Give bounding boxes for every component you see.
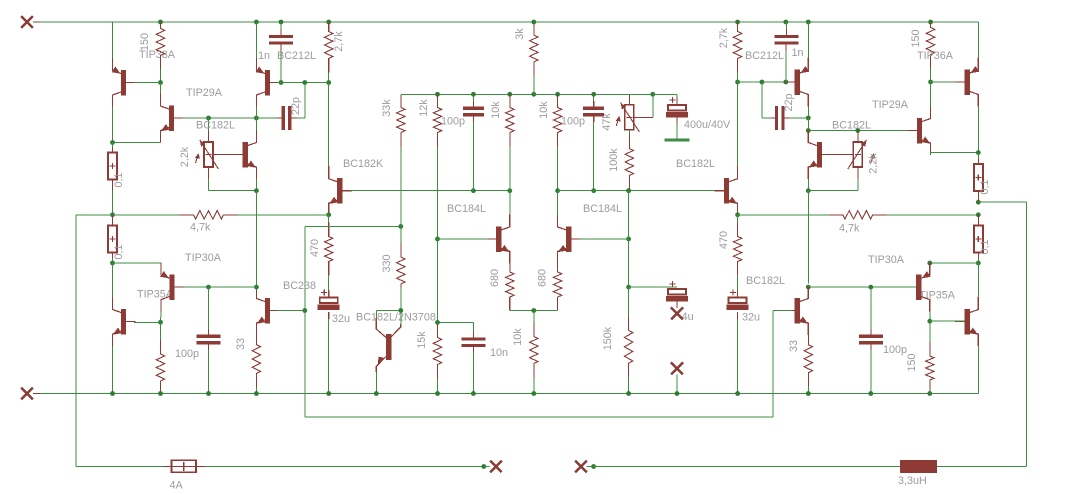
pin 100p midleft bottom: [472, 115, 474, 122]
svg-text:1n: 1n: [792, 47, 804, 59]
junction rail 150RE: [927, 391, 932, 396]
svg-text:4,7k: 4,7k: [190, 222, 211, 234]
svg-text:100p: 100p: [561, 116, 585, 128]
pin 100p midright top: [593, 101, 595, 108]
junction trim top L: [206, 116, 211, 121]
wire Q2 base: [182, 117, 256, 119]
junction rail 3k: [531, 20, 536, 25]
wire box1 top: [112, 143, 114, 148]
transistor BC212L Q4: [256, 58, 280, 107]
pin 1n right bottom: [785, 43, 787, 51]
capacitor 32u left: [318, 290, 340, 311]
pin 47k top: [628, 95, 630, 105]
wire to 400u: [653, 93, 677, 95]
wire 330 to Q18: [400, 287, 402, 311]
pin 32u left bottom: [328, 312, 330, 319]
svg-text:BC184L: BC184L: [447, 203, 486, 215]
transistor TIP36A Q13: [955, 58, 979, 107]
wire Q14 emitter to col: [931, 152, 979, 154]
wire Q4 emitter feed: [255, 22, 257, 58]
wire 100pRm bottom lead: [593, 122, 595, 191]
wire 47k wiper: [634, 116, 653, 118]
svg-text:0,1: 0,1: [113, 244, 125, 259]
resistor 10k right: [553, 94, 561, 190]
wire BC182K base wire: [350, 190, 510, 192]
svg-text:100p: 100p: [441, 116, 465, 128]
svg-text:470: 470: [718, 231, 730, 249]
resistor 33k: [397, 94, 405, 190]
wire 12k to base: [437, 191, 439, 239]
junction Q9 collector node: [507, 188, 512, 193]
svg-text:BC184L: BC184L: [583, 203, 622, 215]
wire input net: [438, 321, 474, 323]
svg-text:32u: 32u: [742, 312, 760, 324]
resistor 150k: [624, 287, 632, 393]
wire Q3 collector up: [255, 118, 257, 130]
wire Q4 collector down: [255, 107, 257, 118]
svg-text:150: 150: [910, 29, 922, 47]
inductor 3,3uH: [900, 460, 937, 473]
svg-text:22p: 22p: [290, 97, 302, 115]
wire Q18 emitter down: [375, 372, 377, 394]
wire Q15 emitter down: [807, 179, 809, 191]
junction Q18 cb node: [398, 308, 403, 313]
wire Q18 base stub: [375, 311, 377, 319]
wire col256 down to BC238: [255, 191, 257, 287]
wire Q13 rail drop: [977, 22, 979, 58]
svg-text:10k: 10k: [512, 328, 524, 346]
wire 1nR top: [785, 22, 787, 30]
resistor 4,7k left: [180, 211, 238, 219]
capacitor 22p left: [283, 106, 290, 130]
transistor BC212L Q12: [785, 58, 809, 107]
wire comp left y287: [182, 286, 256, 288]
svg-text:2,2k: 2,2k: [179, 146, 191, 167]
junction rail 15k: [435, 391, 440, 396]
junction 15k top: [435, 320, 440, 325]
pin 100p rightbot top: [870, 329, 872, 336]
svg-text:100k: 100k: [608, 148, 620, 172]
wire Q19 base wire: [808, 286, 916, 288]
wire bias riser: [304, 226, 306, 417]
junction output node left: [110, 212, 115, 217]
wire output tap: [978, 201, 1026, 203]
wire Q17 collector: [807, 286, 809, 287]
pin X bottom left: [33, 393, 40, 395]
svg-text:0,1: 0,1: [979, 179, 991, 194]
svg-text:BC182L/2N3708: BC182L/2N3708: [356, 312, 436, 324]
transistor BC182L Q11 (VAS right): [714, 166, 737, 215]
junction 100pLm top: [471, 92, 476, 97]
junction 100pL2 top: [206, 285, 211, 290]
wire V+ rail: [39, 21, 978, 23]
svg-text:1n: 1n: [258, 50, 270, 62]
fuse 4A: [163, 460, 205, 472]
transistor TIP30A Q6: [160, 263, 184, 312]
svg-text:BC182L: BC182L: [746, 275, 785, 287]
wire box R2 bottom: [977, 258, 979, 264]
pin 400u bottom: [676, 117, 678, 124]
wire wiper to Q15 base: [822, 154, 853, 156]
junction Q1 base node: [158, 80, 163, 85]
junction rail 10n: [471, 391, 476, 396]
wire base rail left: [277, 82, 329, 84]
junction 100pRm bottom: [591, 188, 596, 193]
transistor BC182K: [329, 166, 352, 215]
transistor BC184L right Q10: [558, 214, 581, 263]
wire wiper to Q3 base: [213, 154, 243, 156]
X mark speaker left: [490, 461, 502, 473]
wire X stub: [676, 375, 678, 394]
wire box1 bottom: [112, 190, 114, 215]
svg-text:BC182L: BC182L: [676, 158, 715, 170]
wire 100pRB bottom lead: [870, 350, 872, 394]
junction rail 10k tail: [531, 391, 536, 396]
junction Q7 base node: [158, 320, 163, 325]
wire 33k to bias: [400, 191, 402, 227]
svg-text:10n: 10n: [490, 347, 508, 359]
pin 1n left top: [280, 29, 282, 37]
junction rail 32uL: [326, 391, 331, 396]
wire 22pR riser: [761, 82, 763, 118]
wire to 4u: [629, 286, 677, 288]
junction Q15 emitter node: [806, 188, 811, 193]
svg-text:33: 33: [788, 340, 800, 352]
wire fuse run b: [205, 465, 484, 467]
capacitor 22p right: [777, 106, 784, 130]
svg-text:2,7k: 2,7k: [333, 31, 345, 52]
pin 100p leftbot top: [208, 329, 210, 336]
capacitor 100p mid right: [583, 108, 604, 115]
svg-text:TIP30A: TIP30A: [185, 252, 222, 264]
pin 0,1 L2 bottom: [112, 252, 114, 258]
junction riser 628 y190: [626, 188, 631, 193]
svg-text:4A: 4A: [170, 480, 184, 492]
resistor 33 left: [252, 335, 260, 394]
svg-text:BC182L: BC182L: [832, 120, 871, 132]
capacitor 100p mid left: [463, 108, 484, 115]
resistor 680 right: [553, 263, 561, 297]
resistor 150 left: [156, 22, 164, 83]
wire fuse run a: [76, 465, 164, 467]
pin 100p leftbot bottom: [208, 343, 210, 350]
wire Q9 base: [436, 238, 488, 240]
wire output run right b: [887, 214, 979, 216]
wire trim top lead: [208, 118, 210, 131]
junction rail 100pLB: [206, 391, 211, 396]
svg-text:4u: 4u: [682, 311, 694, 323]
wire BC238 collector: [255, 286, 257, 287]
svg-text:15k: 15k: [416, 331, 428, 349]
X bottom left rail: [21, 388, 33, 400]
svg-text:3,3uH: 3,3uH: [898, 475, 927, 487]
resistor 2,7k right: [733, 22, 741, 82]
wire Q11 collector up: [737, 82, 739, 166]
wire Q18 collector stub: [400, 311, 402, 325]
wire Q2 collector: [160, 83, 162, 94]
junction rail 32uR: [735, 391, 740, 396]
resistor 15k: [433, 322, 441, 393]
pin 100p midright bottom: [593, 115, 595, 122]
resistor 10k tail: [530, 310, 538, 393]
junction rail X stub: [675, 391, 680, 396]
trimmer 2,2k left: [195, 140, 219, 169]
transistor TIP35A Q16: [955, 297, 978, 346]
wire output run left b: [238, 214, 329, 216]
resistor 150 left emitter: [156, 322, 164, 393]
pin 10n bottom: [472, 346, 474, 353]
wire bias cross: [305, 225, 401, 227]
wire Q9 collector: [509, 191, 511, 215]
junction rail 150k: [626, 391, 631, 396]
wire y417 cross: [305, 416, 773, 418]
junction 12k top: [435, 92, 440, 97]
resistor 3k: [530, 22, 538, 94]
svg-text:BC212L: BC212L: [745, 50, 784, 62]
capacitor 100p right bottom: [859, 336, 883, 343]
wire output run right a: [738, 214, 829, 216]
svg-text:100p: 100p: [175, 348, 199, 360]
svg-text:680: 680: [489, 269, 501, 287]
wire 100pLB bottom: [208, 350, 210, 394]
resistor 0,1 left upper: [108, 153, 117, 180]
wire Q12 emitter feed: [807, 22, 809, 58]
junction 100pRB top: [868, 285, 873, 290]
capacitor 4u: [666, 281, 688, 302]
wire col2 down: [112, 22, 114, 58]
wire 1nR bottom: [785, 50, 787, 82]
pin 22p left lead2: [291, 117, 297, 119]
pin 0,1 L1 top: [112, 147, 114, 153]
junction 100pL bottom: [471, 188, 476, 193]
wire 100pLm bottom lead: [472, 122, 474, 191]
transistor BC238: [256, 286, 279, 335]
junction Q10 coll node: [555, 188, 560, 193]
svg-text:32u: 32u: [332, 313, 350, 325]
resistor 150 right emitter: [926, 321, 934, 393]
pin fuse right: [196, 465, 205, 467]
wire 32uR bottom: [737, 319, 739, 394]
junction 1nR: [783, 80, 788, 85]
junction 470R top: [735, 212, 740, 217]
pin trimmer right top: [857, 131, 859, 143]
wire trim bottom to node: [209, 190, 257, 192]
transistor BC182L Q3: [233, 130, 256, 179]
X mark speaker right: [575, 461, 587, 473]
junction Q16 base node: [927, 319, 932, 324]
pin trimmer left top: [208, 131, 210, 143]
wire 10n top: [472, 322, 474, 332]
wire trimR bottom to node: [808, 190, 858, 192]
pin 680 left bend: [509, 297, 511, 310]
wire ind stub: [587, 466, 594, 468]
junction BC238 coll node: [254, 285, 259, 290]
wire emitter node: [113, 142, 161, 144]
junction 3k bottom: [531, 92, 536, 97]
capacitor 400u/40V: [666, 97, 688, 118]
svg-text:470: 470: [309, 239, 321, 257]
svg-text:0,1: 0,1: [979, 239, 991, 254]
wire Q13 collector down: [977, 107, 979, 153]
X mark stub: [671, 363, 683, 375]
pin 22p right lead1: [771, 117, 776, 119]
wire col978 a: [977, 153, 979, 159]
svg-text:TIP35A: TIP35A: [919, 290, 956, 302]
junction rail 150LE: [158, 391, 163, 396]
pin X top left: [33, 21, 40, 23]
wire 680L to join: [510, 309, 534, 311]
svg-text:150k: 150k: [602, 326, 614, 350]
capacitor 1n right: [774, 37, 798, 44]
svg-text:150: 150: [906, 353, 918, 371]
pin 100p midleft top: [472, 101, 474, 108]
wire 22pL riser: [304, 83, 306, 119]
wire takeoff left down: [75, 215, 77, 467]
wire base to input node: [437, 239, 439, 323]
junction rail 2,7kR: [735, 20, 740, 25]
trimmer 2,2k right: [848, 140, 876, 169]
wire takeoff right down: [1025, 202, 1027, 466]
junction output node right: [976, 212, 981, 217]
transistor BC182L Q15: [808, 130, 831, 179]
wire 1nL bottom: [280, 50, 282, 83]
junction rail 1nR: [783, 20, 788, 25]
junction BC238 base node: [302, 308, 307, 313]
junction rail 33R: [806, 391, 811, 396]
resistor 10k left: [506, 94, 514, 190]
junction 10kL top: [507, 92, 512, 97]
wire Q3 emitter down: [255, 179, 257, 191]
wire Q19 collector down: [929, 312, 931, 322]
transistor TIP30A Q19: [907, 263, 931, 312]
junction 1nL: [279, 80, 284, 85]
junction Q19 emitter: [927, 261, 932, 266]
wire 22pR left: [762, 117, 771, 119]
pin 400u top: [676, 98, 678, 105]
svg-text:TIP35A: TIP35A: [137, 289, 174, 301]
wire to Q6 emitter: [113, 262, 162, 264]
junction fuse end: [481, 464, 486, 469]
svg-text:33: 33: [235, 338, 247, 350]
wire Q1 base: [134, 82, 161, 84]
svg-text:3k: 3k: [514, 28, 526, 40]
svg-text:2,7k: 2,7k: [718, 27, 730, 48]
svg-text:12k: 12k: [418, 99, 430, 117]
pin trimmer left bottom: [208, 167, 210, 179]
wire col808 y190-287: [807, 191, 809, 284]
wire Q10 collector: [557, 191, 559, 215]
junction y82 end: [326, 80, 331, 85]
wire 470-32u: [328, 287, 330, 291]
junction rail 150L: [158, 20, 163, 25]
junction 10kR top: [555, 92, 560, 97]
junction rail 100pRB: [868, 391, 873, 396]
capacitor 32u right: [727, 290, 749, 311]
svg-text:10k: 10k: [490, 101, 502, 119]
resistor 4,7k right: [829, 211, 887, 219]
junction col978 263: [976, 261, 981, 266]
wire vref rail: [401, 93, 653, 95]
wire Q16 collector up: [977, 263, 979, 297]
pin 0,1 R1 top: [977, 159, 979, 165]
pin 32u right bottom: [737, 312, 739, 319]
transistor TIP29A Q14: [907, 106, 930, 155]
resistor 0,1 right lower: [974, 226, 983, 253]
junction Q13 base node: [928, 80, 933, 85]
pin 10n top: [472, 332, 474, 339]
junction rail Q12: [806, 20, 811, 25]
resistor 12k: [433, 94, 441, 190]
wire 32uL bottom: [328, 319, 330, 394]
junction Q13-Q14 node: [976, 150, 981, 155]
wire 22pR right: [789, 117, 808, 119]
transistor TIP35A Q7: [113, 297, 136, 346]
junction rail 33L: [254, 391, 259, 396]
transistor TIP33A Q1: [112, 58, 136, 107]
junction rail Q4: [254, 20, 259, 25]
pin 32u right top: [737, 290, 739, 297]
capacitor 10n: [461, 339, 485, 346]
wire Q16 base wire: [930, 320, 965, 322]
wire Q13 base wire: [931, 81, 957, 83]
svg-text:BC212L: BC212L: [277, 50, 316, 62]
wire riser 628: [628, 191, 630, 287]
junction Q10 base node: [626, 237, 631, 242]
junction rail 2,7kL: [326, 20, 331, 25]
junction trimR top: [855, 128, 860, 133]
wire box2 bottom: [112, 258, 114, 264]
junction Q12 coll node: [806, 116, 811, 121]
wire Q6 collector down: [160, 312, 163, 323]
svg-text:10k: 10k: [538, 101, 550, 119]
svg-text:100p: 100p: [883, 344, 907, 356]
wire ind run b: [937, 466, 1026, 468]
wire Q17 base: [773, 310, 791, 312]
pin 0,1 R2 top: [977, 215, 979, 226]
pin 22p left lead1: [277, 117, 283, 119]
junction comp node L: [254, 116, 259, 121]
junction 22pR riser: [760, 80, 765, 85]
junction col808 287: [806, 285, 811, 290]
wire Q1 collector down: [112, 107, 114, 143]
svg-text:BC238: BC238: [283, 280, 316, 292]
trimmer 47k: [616, 103, 640, 132]
wire fuse end stub: [484, 466, 490, 468]
junction output tap right: [976, 200, 981, 205]
svg-text:TIP36A: TIP36A: [917, 50, 954, 62]
junction 470L top: [326, 212, 331, 217]
wire 680R to join: [534, 309, 558, 311]
svg-text:150: 150: [139, 33, 151, 51]
svg-text:TIP29A: TIP29A: [872, 99, 909, 111]
junction Q11 coll node: [735, 80, 740, 85]
svg-text:680: 680: [537, 269, 549, 287]
wire Q10 base: [580, 238, 629, 240]
svg-text:2,2k: 2,2k: [868, 153, 880, 174]
wire trim jog right (Q14 base): [808, 130, 917, 132]
wire 22pL right: [296, 117, 305, 119]
wire bottom rail: [39, 393, 978, 395]
transistor BC184L left Q9: [487, 214, 510, 263]
wire 100pLm top lead: [472, 94, 474, 101]
pin 4u bottom: [676, 302, 678, 309]
junction rail 1nL: [279, 20, 284, 25]
resistor 470 left: [325, 215, 333, 287]
pin trimmer right bottom: [857, 167, 859, 179]
wire 100pRm top lead: [593, 94, 595, 101]
resistor 0,1 left lower: [108, 226, 117, 253]
svg-text:33k: 33k: [381, 99, 393, 117]
